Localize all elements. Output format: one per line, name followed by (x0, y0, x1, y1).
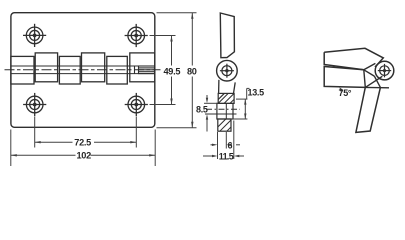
junction wedge lines at knuckle (364, 63, 389, 87)
knuckle band segment 2 (35, 53, 57, 82)
svg-text:80: 80 (187, 67, 197, 77)
75 degree leader arrow (340, 87, 344, 92)
pin end hatched block (135, 66, 155, 74)
svg-text:8.5: 8.5 (196, 105, 208, 115)
pin hole target (side view) (220, 64, 234, 78)
knuckle band segment 3 (59, 56, 80, 84)
lower bar leaf (324, 67, 365, 88)
hinge pin lines across band (11, 66, 155, 74)
band centerline (dash-dot) (5, 69, 161, 71)
upper bar leaf (324, 48, 383, 70)
extension lines for 80 dim (157, 13, 197, 128)
knuckle band segment 4 (82, 53, 105, 82)
dimension 72.5 horizontal line with arrows (35, 141, 137, 143)
upper leaf strip outline (220, 13, 234, 58)
svg-text:11.5: 11.5 (219, 152, 234, 162)
hole top-right (125, 24, 148, 47)
extension lines below section (218, 121, 234, 160)
knuckle circle (side view) (217, 60, 238, 81)
dimension 49.5 vertical line with arrows (170, 36, 172, 105)
extension lines for 72.5 dim (35, 117, 137, 148)
descending leaf strip (356, 87, 381, 132)
hole bottom-left (23, 93, 46, 116)
section centerline (dash-dot) (206, 108, 240, 110)
dimension 8.5 arrows (206, 95, 208, 132)
svg-text:49.5: 49.5 (164, 67, 181, 77)
extension lines 13.5 (231, 88, 250, 119)
hinge leaf plate (front view outline) (11, 13, 155, 128)
knuckle circle right view (375, 61, 394, 80)
connectors from knuckle to section (219, 80, 236, 94)
knuckle band segment 1 (11, 53, 155, 84)
hole top-left (23, 24, 46, 47)
extension line 8.5 top (204, 102, 218, 104)
svg-text:13.5: 13.5 (248, 88, 265, 98)
dimension 11.5 arrows (203, 155, 244, 157)
dimension 102 horizontal line with arrows (11, 154, 155, 156)
dimension 6 arrows (211, 144, 241, 146)
upper hatched section block (218, 93, 234, 103)
dimension 80 vertical line with arrows (191, 13, 193, 128)
extension lines for 102 dim (11, 130, 155, 167)
knuckle band segment 5 (107, 56, 128, 84)
section step line (205, 113, 237, 115)
pin hole target right view (378, 64, 391, 77)
svg-text:6: 6 (228, 141, 233, 151)
hole bottom-right (125, 93, 148, 116)
svg-text:75°: 75° (339, 88, 352, 98)
svg-text:72.5: 72.5 (74, 138, 91, 148)
lower hatched section block (218, 119, 231, 131)
dimension 13.5 line with arrows (244, 99, 246, 119)
extension lines for 49.5 dim (150, 36, 176, 105)
white pin band of section (217, 103, 233, 119)
svg-text:102: 102 (77, 151, 92, 161)
knuckle band segment 6 (130, 53, 155, 82)
